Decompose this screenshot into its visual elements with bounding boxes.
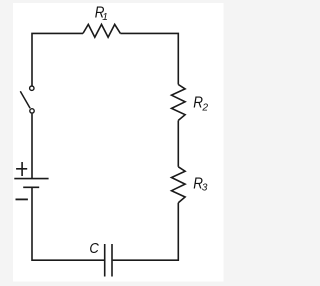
battery positive plate (long) (14, 178, 48, 180)
wire: R1 right lead to top-right corner down to R2 (120, 33, 178, 84)
svg-text:1: 1 (102, 12, 108, 23)
switch blade (20, 91, 30, 108)
capacitor C left plate (104, 244, 106, 277)
capacitor C right plate (111, 244, 113, 277)
switch lower terminal circle (30, 109, 34, 113)
white drawing canvas (13, 3, 224, 282)
svg-text:C: C (89, 240, 99, 257)
wire: top-left corner to R1 left lead (32, 33, 83, 85)
svg-text:3: 3 (202, 183, 208, 194)
wire: capacitor left plate to bottom-left corner up to battery (32, 187, 104, 260)
battery negative plate (short) (23, 186, 39, 188)
battery plus sign (16, 162, 27, 176)
wire: battery positive plate up to switch lower terminal (31, 114, 33, 179)
resistor R2 (172, 85, 186, 121)
wire: R3 to bottom-right corner to capacitor right plate (113, 203, 179, 261)
resistor R3 (172, 167, 186, 203)
battery minus sign (16, 198, 28, 200)
switch upper terminal circle (30, 86, 34, 90)
wire: R2 to R3 (177, 120, 179, 166)
svg-text:2: 2 (201, 103, 208, 114)
resistor R1 (83, 24, 120, 37)
